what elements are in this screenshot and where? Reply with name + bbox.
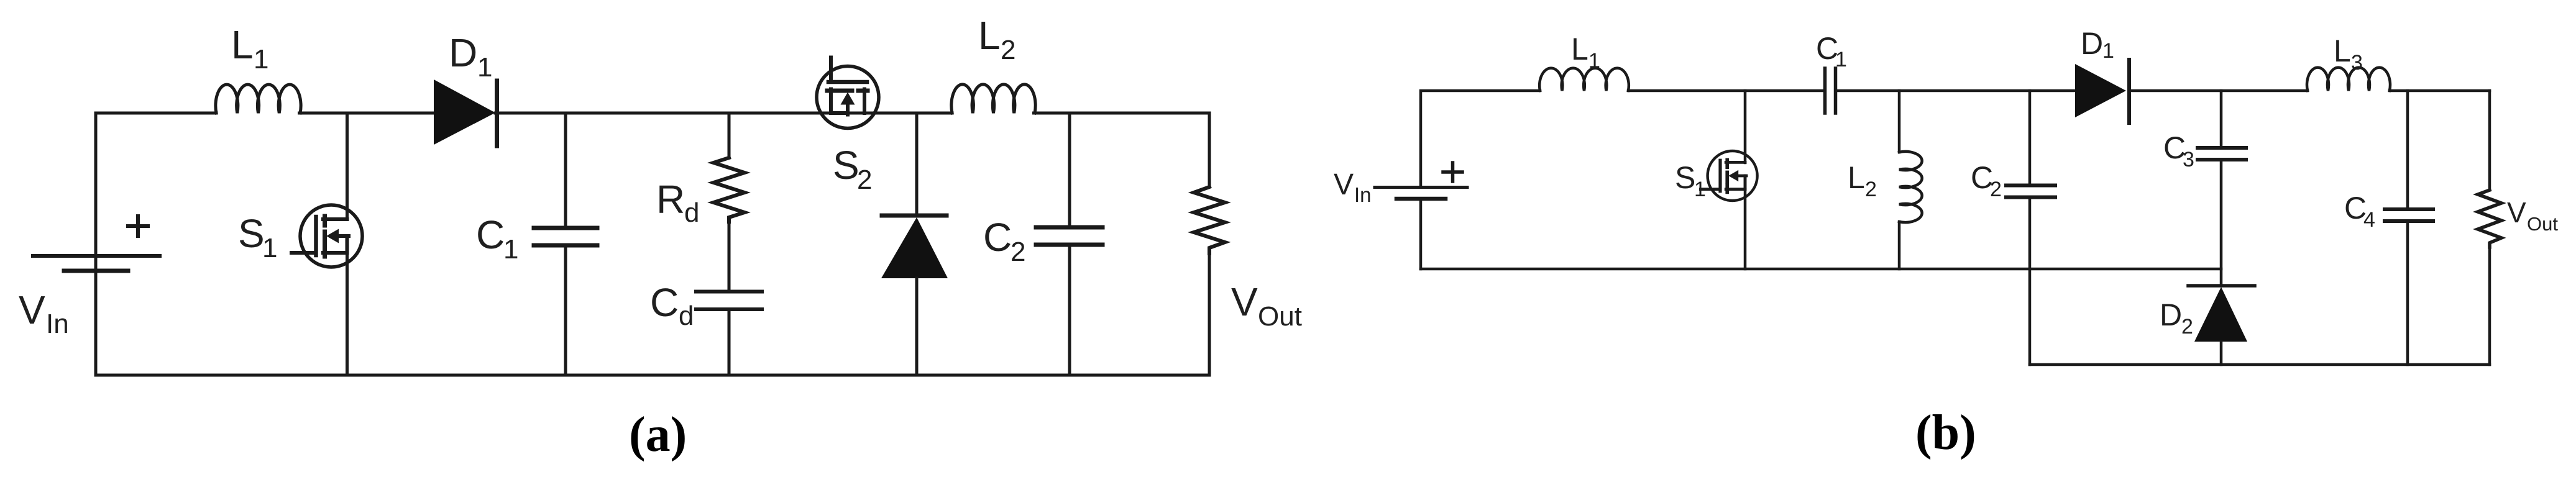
- diode D1 (b): [2075, 64, 2126, 117]
- wire: S1 drain vertical: [346, 113, 349, 219]
- svg-text:L: L: [978, 13, 1001, 58]
- diode D1 (a): [434, 79, 495, 145]
- svg-text:In: In: [1354, 183, 1372, 206]
- inductor L1 (b): [1539, 68, 1629, 91]
- resistor V_Out load (a): [1208, 113, 1211, 187]
- svg-text:S: S: [833, 143, 859, 188]
- svg-text:d: d: [684, 198, 699, 228]
- svg-text:V: V: [1334, 168, 1354, 201]
- svg-text:L: L: [1848, 160, 1865, 195]
- svg-text:1: 1: [2102, 39, 2114, 63]
- svg-text:1: 1: [254, 44, 268, 75]
- resistor V_Out load (b): [2488, 91, 2491, 190]
- capacitor C4 (b): [2406, 91, 2409, 208]
- wire: S1 drain vertical (b): [1744, 91, 1747, 163]
- wire: lower rail (b): [2030, 363, 2490, 366]
- wire: mid ground rail (b): [1421, 268, 2221, 271]
- capacitor C1 (a): [564, 113, 567, 227]
- svg-text:R: R: [656, 177, 685, 222]
- svg-text:1: 1: [1835, 48, 1847, 71]
- svg-text:S: S: [1675, 160, 1695, 195]
- transistor S2 (a): [815, 58, 881, 129]
- capacitor C2 (b): [2028, 91, 2032, 184]
- svg-text:L: L: [1571, 32, 1588, 66]
- svg-text:2: 2: [2181, 315, 2193, 338]
- svg-text:1: 1: [1694, 178, 1706, 201]
- svg-text:3: 3: [2351, 51, 2363, 75]
- svg-text:V: V: [1231, 279, 1258, 324]
- svg-text:D: D: [2081, 26, 2103, 61]
- capacitor C2 (a): [1068, 113, 1071, 227]
- svg-text:(b): (b): [1915, 406, 1976, 460]
- capacitor C1 (b) series: [1823, 68, 1827, 113]
- svg-text:1: 1: [1588, 49, 1600, 73]
- wire: C1 to D1 segment (b): [1837, 89, 2076, 93]
- battery V_In (b): [1421, 91, 1540, 187]
- svg-text:L: L: [231, 22, 254, 67]
- wire: circuit (a) top rail left segment: [96, 113, 216, 267]
- svg-text:C: C: [650, 280, 679, 325]
- svg-text:1: 1: [262, 233, 277, 263]
- resistor Rd (a): [728, 113, 731, 158]
- svg-text:d: d: [679, 301, 694, 331]
- capacitor Cd (a): [728, 222, 731, 291]
- svg-text:1: 1: [503, 234, 518, 265]
- wire: L1 to D1 segment: [300, 112, 436, 115]
- svg-text:4: 4: [2363, 208, 2375, 232]
- svg-text:In: In: [46, 309, 69, 339]
- wire: L1 to C1 segment (b): [1628, 89, 1822, 93]
- svg-text:L: L: [2334, 34, 2351, 68]
- wire: S1 source vertical to bottom rail: [346, 236, 349, 375]
- battery V_In (a): [33, 254, 160, 258]
- svg-text:S: S: [238, 211, 265, 256]
- svg-text:Out: Out: [1258, 301, 1302, 332]
- svg-text:V: V: [19, 288, 45, 332]
- svg-text:C: C: [983, 215, 1012, 260]
- wire: D1 to L3 segment (b): [2129, 89, 2308, 93]
- inductor L2 (b) vertical: [1898, 91, 1901, 152]
- svg-text:3: 3: [2183, 148, 2194, 171]
- diode (shunt, unlabeled) below S2 junction: [915, 113, 919, 216]
- capacitor C3 (b): [2220, 91, 2223, 146]
- diode D2 (b): [2188, 284, 2255, 288]
- svg-text:2: 2: [857, 165, 872, 195]
- svg-text:2: 2: [1990, 178, 2002, 201]
- transistor S1 (b): [1700, 150, 1757, 202]
- inductor L3 (b): [2307, 68, 2390, 91]
- wire: D1 to L2 segment (passes through S2): [495, 112, 952, 115]
- svg-text:(a): (a): [629, 407, 687, 462]
- svg-text:2: 2: [1001, 35, 1015, 65]
- svg-text:Out: Out: [2527, 213, 2558, 235]
- svg-text:2: 2: [1011, 237, 1025, 267]
- wire: bottom rail (a): [96, 374, 1209, 377]
- svg-text:1: 1: [477, 52, 492, 83]
- inductor L1 (a): [216, 84, 301, 113]
- svg-text:C: C: [476, 212, 505, 257]
- wire: L3 to output corner (b): [2390, 89, 2490, 93]
- inductor L2 (a): [951, 84, 1035, 113]
- transistor S1 (a): [291, 203, 362, 269]
- wire: S1 source vertical (b): [1744, 176, 1747, 269]
- svg-text:V: V: [2507, 196, 2526, 229]
- svg-text:D: D: [2160, 298, 2182, 332]
- svg-text:D: D: [449, 30, 477, 75]
- wire: L2 to output corner: [1034, 112, 1210, 115]
- svg-text:2: 2: [1865, 178, 1877, 201]
